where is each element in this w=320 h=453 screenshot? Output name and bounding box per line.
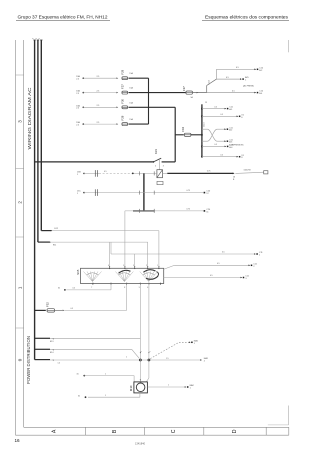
wire riser to F30 — [174, 107, 176, 162]
junction row A — [132, 173, 134, 175]
column strip — [24, 426, 289, 428]
svg-text:K31: K31 — [154, 149, 158, 154]
svg-text:POWER DISTRIBUTION: POWER DISTRIBUTION — [26, 336, 31, 384]
terminal block under breaker — [157, 181, 163, 184]
wire M10 bottom — [139, 393, 141, 397]
svg-text:Grupo 37 Esquema elétrico FM,: Grupo 37 Esquema elétrico FM, FH, NH12 — [18, 15, 109, 20]
wire S15 t5 drop — [158, 231, 160, 267]
wire K31 blade to breaker — [159, 160, 161, 170]
svg-text:0.5: 0.5 — [220, 114, 223, 116]
svg-text:1: 1 — [150, 351, 152, 352]
wire feed F28 — [83, 123, 116, 125]
switch wafer — [84, 272, 93, 282]
node twisted exit 2 — [224, 140, 226, 142]
svg-text:(COMPRESSOR): (COMPRESSOR) — [229, 145, 244, 147]
svg-text:0.5: 0.5 — [214, 106, 217, 108]
svg-text:B: B — [112, 429, 118, 433]
fold mark bottom right — [288, 406, 290, 425]
svg-text:31: 31 — [58, 287, 60, 289]
wire heavy output row A — [163, 172, 168, 174]
node exit C107 top — [254, 68, 256, 70]
node dashed exit — [189, 342, 191, 344]
breaker rectangle — [157, 170, 163, 178]
wire feed F27 — [83, 92, 116, 94]
svg-text:0.5: 0.5 — [236, 67, 239, 69]
wire dashed option — [150, 342, 179, 358]
svg-text:0.75: 0.75 — [207, 171, 211, 173]
wire branch to mid exit — [217, 78, 242, 80]
switch wafer — [140, 272, 149, 282]
node row exit — [225, 108, 227, 110]
wire riser to F04 — [175, 134, 184, 136]
wire feed F29 — [83, 77, 116, 79]
wire S15 lower exit — [164, 277, 242, 279]
svg-text:2: 2 — [146, 265, 147, 267]
wire distribution row — [201, 156, 203, 158]
wire stub 58 — [41, 230, 51, 232]
frame left outer border — [15, 40, 17, 435]
svg-text:3: 3 — [163, 165, 164, 167]
fold mark top right — [288, 40, 290, 52]
svg-text:F27: F27 — [120, 84, 124, 89]
svg-text:5: 5 — [155, 165, 156, 167]
svg-text:1: 1 — [126, 357, 127, 359]
svg-text:M10: M10 — [129, 385, 133, 391]
node exit right — [254, 92, 256, 94]
wire stub to S15 t4 — [51, 241, 148, 243]
bus bar 30 (left) — [34, 40, 36, 360]
wire ground row — [50, 359, 201, 361]
wire S15 t4 drop — [147, 242, 149, 267]
row scale ticks — [16, 74, 24, 76]
svg-text:5: 5 — [133, 265, 134, 267]
svg-text:(AC PRESS): (AC PRESS) — [243, 85, 254, 88]
wire stub 15 — [38, 241, 50, 243]
wire nested route h3 — [110, 242, 112, 254]
svg-text:C113: C113 — [209, 80, 211, 84]
svg-text:C: C — [171, 429, 177, 433]
fuse F28 — [122, 123, 128, 126]
junction J2 — [148, 359, 151, 362]
fuse F04 — [184, 133, 191, 136]
wire bus to F52 — [35, 309, 46, 311]
wire F52 to S15 u2 — [64, 309, 126, 311]
svg-text:F28: F28 — [120, 115, 124, 120]
wire F28 to junction bus — [129, 123, 149, 125]
svg-text:WIRING DIAGRAM AC: WIRING DIAGRAM AC — [27, 87, 32, 150]
wire to connector plug — [235, 172, 263, 173]
wire distribution row — [201, 115, 203, 117]
junction J1 — [139, 359, 142, 362]
wire row to C111 — [111, 253, 255, 255]
svg-text:31: 31 — [77, 374, 79, 376]
wire to M10 top left — [84, 375, 134, 377]
wire stub to S15 t5 — [53, 230, 159, 232]
node row exit — [237, 156, 239, 158]
wire stub to junction — [50, 337, 140, 339]
wire feed F30 — [83, 106, 116, 108]
svg-text:F04: F04 — [181, 127, 185, 132]
node exit S15 b — [241, 277, 243, 279]
svg-text:D: D — [232, 429, 238, 433]
wire stub to M10 branch — [50, 348, 132, 350]
node row exit — [237, 116, 239, 118]
svg-text:7: 7 — [91, 287, 92, 289]
svg-text:31: 31 — [78, 395, 80, 397]
fuse F37 — [186, 91, 193, 94]
node arrow end row A — [233, 173, 235, 175]
switch wafer — [115, 272, 124, 282]
svg-text:E11: E11 — [53, 245, 56, 247]
svg-text:8: 8 — [124, 287, 125, 289]
wire F37 output — [193, 92, 207, 94]
svg-text:E14: E14 — [50, 352, 53, 354]
wire K31 to vertical riser — [162, 161, 176, 163]
node twisted exit 1 — [224, 128, 226, 130]
svg-text:F29: F29 — [120, 69, 124, 74]
splice bar — [143, 173, 145, 211]
svg-text:0.5: 0.5 — [210, 275, 213, 277]
svg-text:E12: E12 — [55, 228, 58, 230]
wire into M10 — [133, 376, 135, 382]
node exit C111 — [254, 253, 256, 255]
svg-text:3: 3 — [123, 265, 124, 267]
wafer wiper arm 3 — [144, 270, 156, 273]
wire branch to top exit — [216, 69, 218, 79]
svg-text:6: 6 — [147, 287, 148, 289]
wire J1 to M10 — [139, 361, 141, 382]
wire S15 t1 drop — [109, 242, 111, 267]
svg-text:16: 16 — [15, 438, 21, 443]
wire F04 to distribution bus — [191, 134, 202, 136]
svg-text:F30: F30 — [120, 98, 124, 103]
wire F52 out — [55, 309, 63, 311]
wire F27 to F37 — [129, 92, 187, 94]
svg-text:0.5: 0.5 — [217, 263, 220, 265]
svg-text:1: 1 — [105, 373, 106, 375]
frame bottom border — [16, 434, 289, 436]
svg-text:E13: E13 — [50, 341, 53, 343]
svg-text:1.5: 1.5 — [58, 362, 61, 364]
wire row C — [125, 210, 203, 212]
wire S15 u1 to connector — [110, 284, 112, 290]
fuse F52 — [47, 309, 55, 312]
svg-text:S15: S15 — [76, 269, 80, 275]
svg-text:1: 1 — [141, 351, 143, 352]
connector pair row A — [84, 172, 99, 174]
svg-text:15: 15 — [205, 102, 207, 104]
node exit row C — [204, 210, 206, 212]
wire stub 30a — [35, 337, 50, 339]
wire S15 t2 drop — [124, 211, 126, 267]
svg-text:0.5: 0.5 — [220, 155, 223, 157]
svg-text:4: 4 — [108, 265, 109, 267]
wire M10 right exit — [147, 386, 185, 388]
svg-text:0.5: 0.5 — [232, 90, 235, 92]
wire distribution row — [201, 108, 203, 110]
wire S15 diagonal exit — [164, 265, 175, 269]
twisted pair wires — [201, 134, 203, 136]
wire F37 branch up — [206, 86, 208, 93]
motor M10 — [134, 382, 148, 393]
svg-text:1: 1 — [157, 265, 158, 267]
switch S15 box — [81, 268, 164, 283]
wire distribution row — [201, 146, 203, 148]
relay contact K31 — [153, 161, 155, 163]
wire junction bus vertical — [148, 78, 150, 124]
wire S15 u3 down — [139, 284, 141, 359]
wire stub 30b — [35, 348, 50, 350]
wire stub 30c — [35, 359, 50, 361]
node M10 exit — [185, 386, 187, 388]
svg-text:0.75: 0.75 — [187, 209, 191, 211]
wire F30 to K31 — [129, 106, 176, 108]
fuse F27 — [122, 91, 128, 94]
node exit S15 a — [249, 265, 251, 267]
svg-text:1341733: 1341733 — [244, 169, 251, 171]
svg-text:0.75: 0.75 — [187, 190, 191, 192]
svg-text:F52: F52 — [45, 302, 49, 307]
bus bar 15 (middle) — [37, 40, 39, 242]
svg-text:1: 1 — [105, 395, 106, 397]
wire F29 to junction bus — [129, 77, 149, 79]
bus bar 58 (right) — [40, 40, 42, 231]
svg-text:0.5: 0.5 — [71, 308, 74, 310]
svg-text:C113: C113 — [203, 123, 205, 127]
wire S15 u4 down — [148, 284, 150, 359]
node row exit — [225, 146, 227, 148]
wire S15 t3 drop — [134, 254, 136, 267]
node arrow row end — [200, 359, 202, 361]
svg-text:F37: F37 — [182, 86, 186, 91]
svg-text:A: A — [52, 429, 58, 433]
svg-text:0.5: 0.5 — [73, 288, 76, 290]
node exit mid — [240, 78, 242, 80]
wafer wiper arm 2 — [119, 270, 131, 273]
svg-text:0.5: 0.5 — [222, 252, 225, 254]
svg-text:0.5: 0.5 — [104, 171, 107, 173]
wire F37 straight exit — [207, 92, 256, 94]
connector plug — [264, 171, 268, 174]
svg-text:1: 1 — [168, 385, 169, 387]
svg-text:9: 9 — [139, 287, 140, 289]
distribution bus vertical — [201, 104, 203, 156]
svg-text:1.5: 1.5 — [166, 358, 169, 360]
svg-text:Esquemas elétricos dos compone: Esquemas elétricos dos componentes — [205, 15, 289, 20]
wire J2 to M10 — [148, 361, 150, 378]
svg-text:1341840: 1341840 — [135, 442, 146, 446]
svg-text:0.5: 0.5 — [214, 144, 217, 146]
node exit row B — [204, 192, 206, 194]
connector pair row B — [84, 192, 203, 194]
frame left inner border — [23, 40, 25, 427]
svg-text:0.5: 0.5 — [226, 77, 229, 79]
wire bus to K31 — [35, 161, 153, 163]
fuse F29 — [122, 77, 128, 80]
fuse F30 — [122, 106, 128, 109]
